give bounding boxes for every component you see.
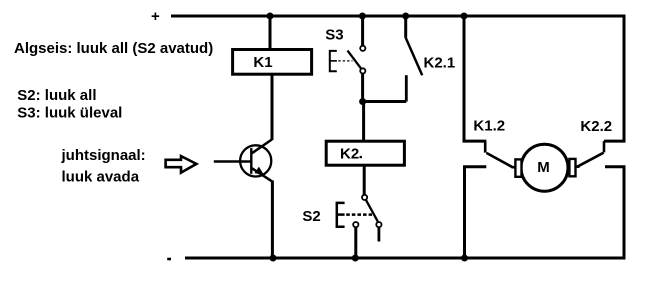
svg-text:K1: K1: [253, 54, 272, 71]
svg-text:K2.2: K2.2: [580, 118, 612, 135]
switch K2.2 (changeover contact): [577, 118, 613, 167]
wire S2 to bottom rail: [354, 227, 357, 258]
switch S2 (door-down limit switch, open): [302, 195, 381, 242]
node junction bottom S2: [352, 255, 359, 262]
node junction bottom emitter: [270, 255, 277, 262]
switch K2.1 (relay contact, open): [406, 16, 455, 102]
node junction bottom right branch: [461, 255, 468, 262]
wire K2 coil to S2: [363, 165, 366, 195]
motor M: [515, 144, 575, 191]
wire top to K1 coil: [269, 16, 272, 50]
svg-text:+: +: [151, 8, 160, 25]
svg-text:K1.2: K1.2: [473, 117, 505, 134]
arrow control-signal pointer: [166, 156, 197, 173]
wire top rail: [171, 16, 624, 141]
node junction top S3: [359, 13, 366, 20]
wire junction to K2 coil: [362, 102, 365, 142]
svg-text:luuk avada: luuk avada: [62, 169, 140, 186]
node - (minus supply label): [167, 258, 171, 261]
svg-text:S2: S2: [302, 208, 320, 225]
relay coil K2: [326, 141, 404, 165]
wire base lead: [214, 160, 251, 163]
wire right branch down to K1.2: [464, 16, 486, 141]
transistor Q1: [240, 139, 272, 181]
node junction top K1: [267, 13, 274, 20]
wire bottom rail: [185, 167, 624, 258]
wire junction to K2.1 bottom: [363, 100, 407, 103]
svg-text:juhtsignaal:: juhtsignaal:: [61, 147, 146, 164]
svg-text:S3: S3: [325, 26, 343, 43]
relay coil K1: [233, 50, 312, 75]
svg-text:K2.1: K2.1: [424, 55, 456, 72]
wire transistor emitter to bottom rail: [271, 181, 274, 259]
switch S3 (limit switch, open): [325, 26, 365, 73]
wire S3 to junction: [361, 73, 364, 102]
wire K1.2 NC to bottom rail: [465, 167, 487, 258]
svg-text:S3: luuk üleval: S3: luuk üleval: [17, 104, 122, 121]
wire top to S3: [361, 16, 364, 46]
node junction top right branch: [461, 13, 468, 20]
switch K1.2 (changeover contact): [473, 117, 514, 167]
wire K1 coil to transistor collector: [271, 74, 274, 140]
node junction top K2.1: [402, 13, 409, 20]
svg-text:K2: K2: [340, 145, 359, 162]
svg-text:S2: luuk all: S2: luuk all: [17, 87, 96, 104]
node junction S3/K2.1: [359, 98, 366, 105]
svg-text:Algseis: luuk all (S2 avatud): Algseis: luuk all (S2 avatud): [14, 40, 213, 57]
svg-text:M: M: [537, 159, 550, 176]
